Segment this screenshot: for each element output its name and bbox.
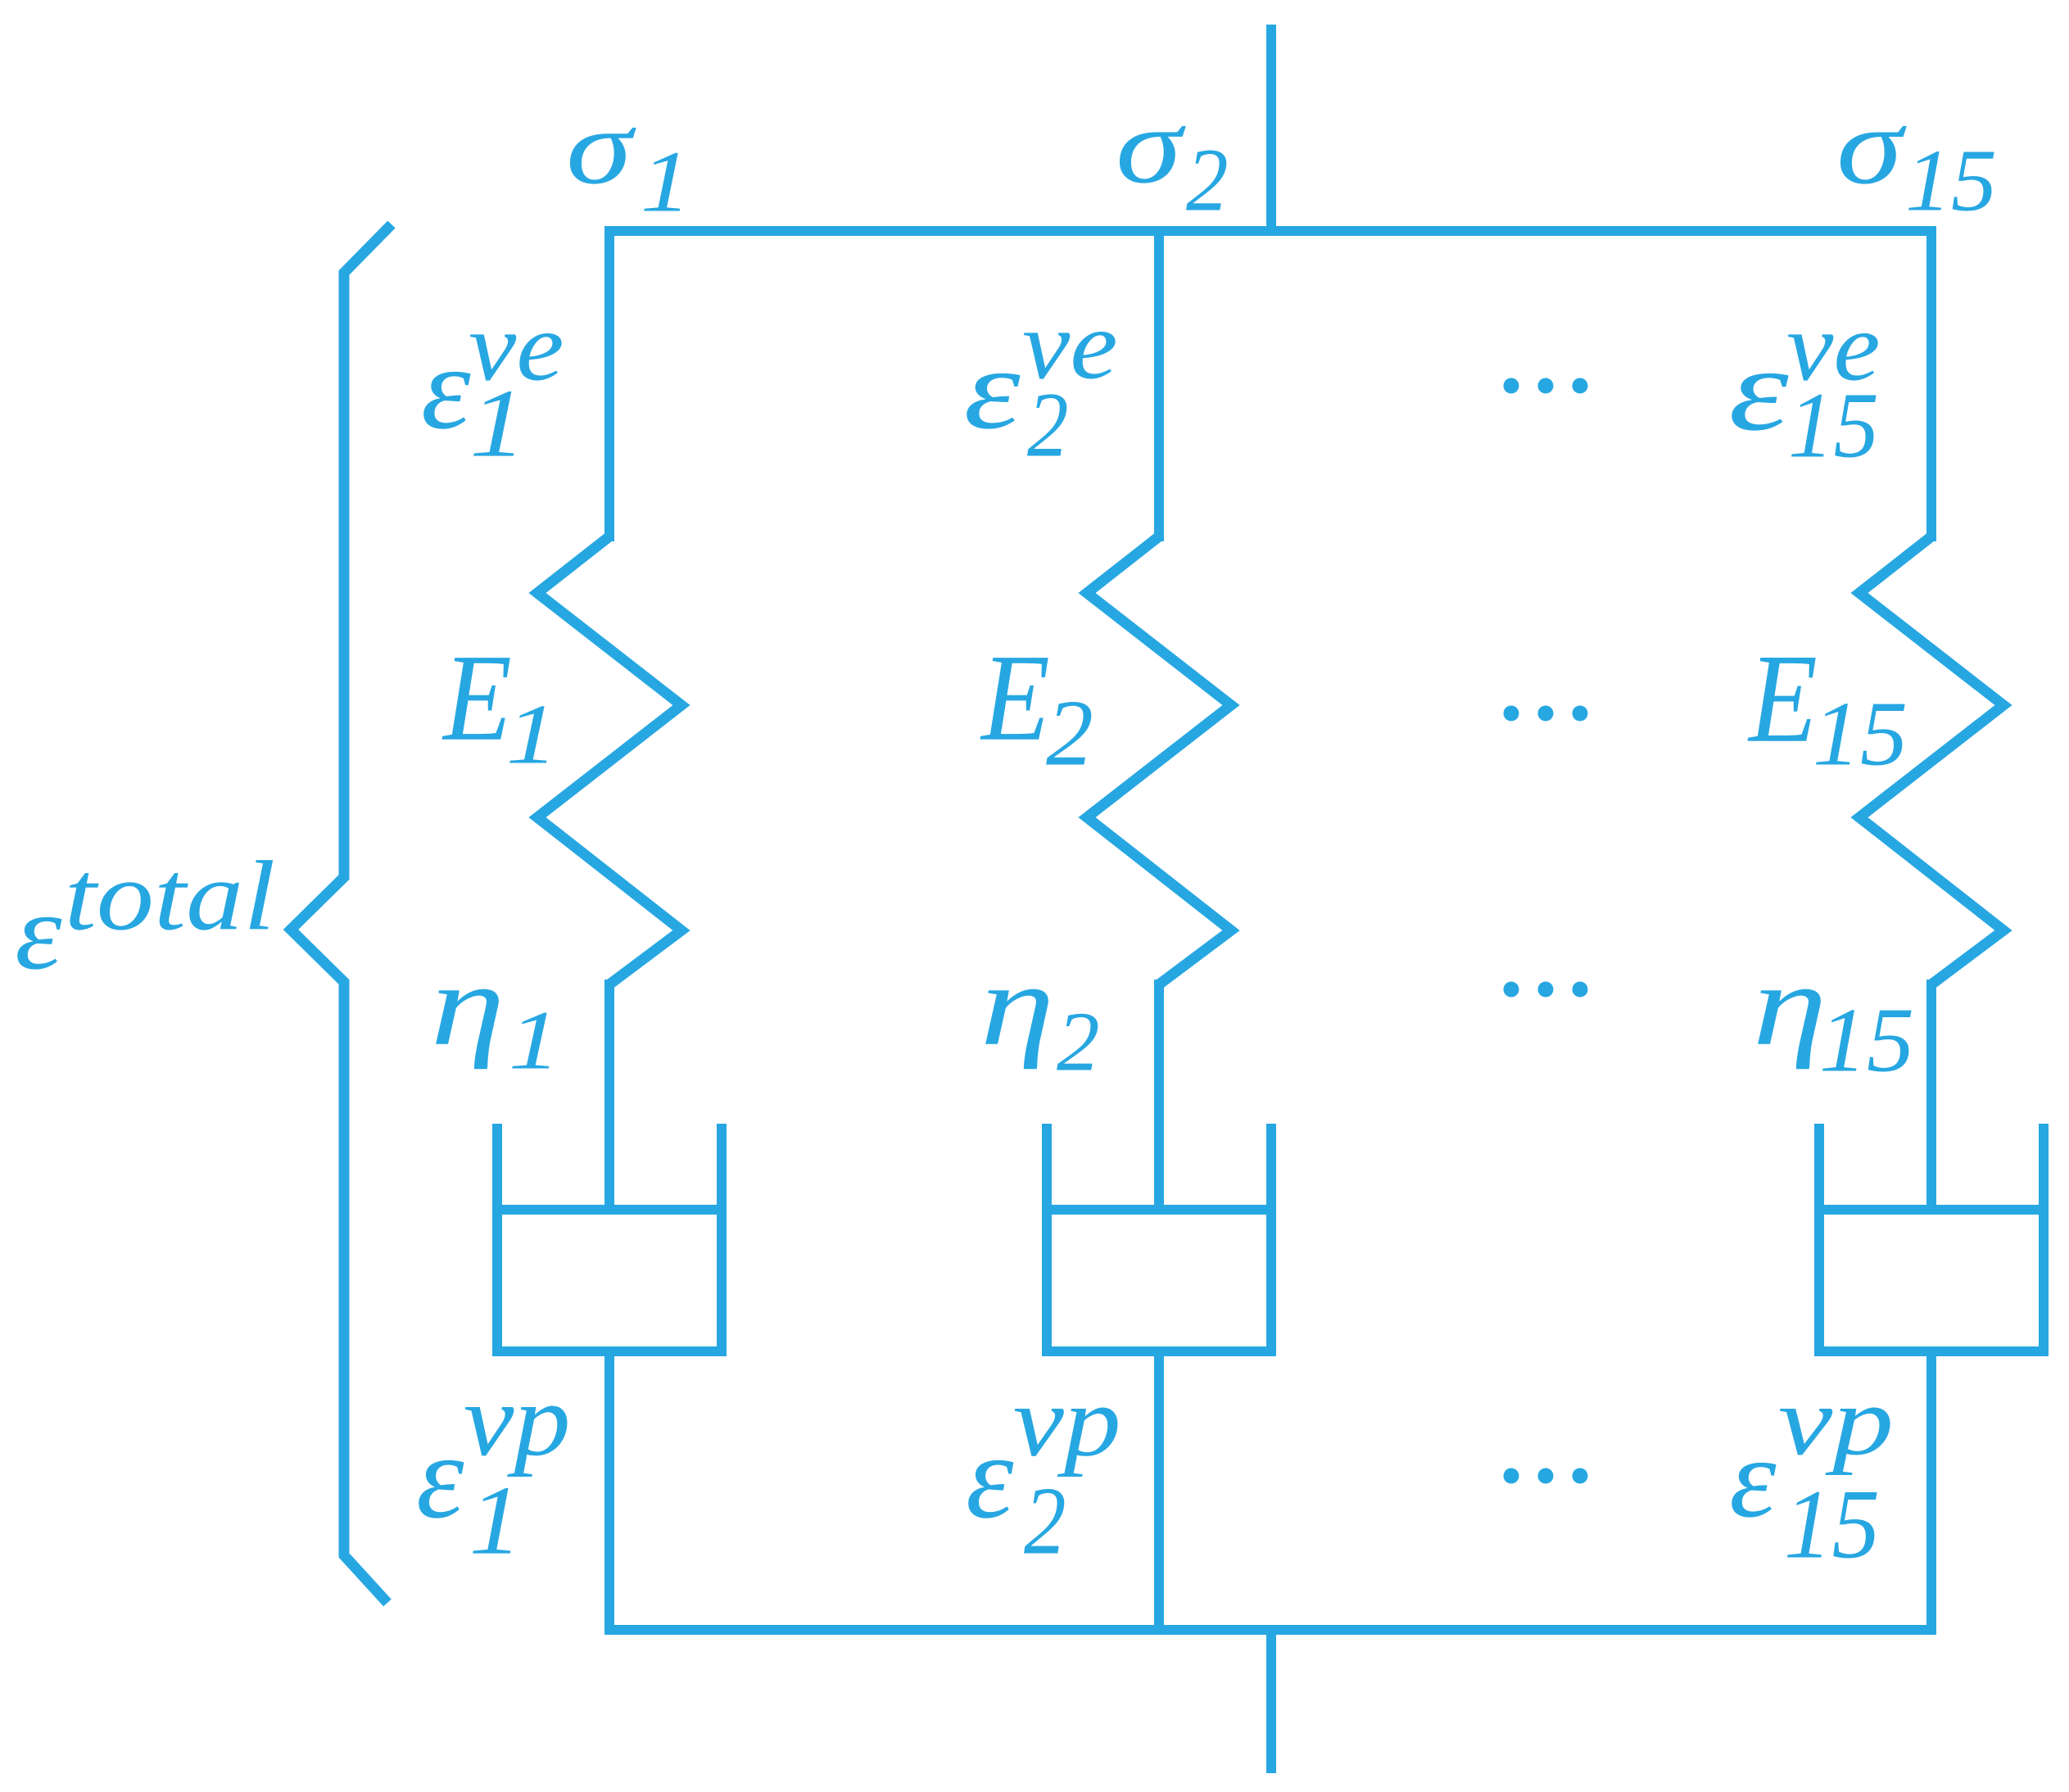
- svg-text:2: 2: [1046, 681, 1093, 785]
- svg-text:1: 1: [641, 133, 691, 230]
- svg-text:E: E: [1747, 627, 1818, 769]
- svg-text:vp: vp: [1013, 1365, 1121, 1477]
- label E15: [1747, 627, 1908, 785]
- svg-text:1: 1: [469, 1466, 523, 1576]
- svg-text:15: 15: [1813, 682, 1908, 785]
- label σ15: [1836, 86, 1997, 230]
- svg-text:15: 15: [1905, 131, 1997, 229]
- wire: top bus: [604, 226, 1936, 236]
- wire: branch 15 rod spring-to-piston: [1926, 980, 1936, 1215]
- svg-text:σ: σ: [1116, 86, 1187, 206]
- dashpot η1: piston plate: [492, 1205, 727, 1215]
- label η2: [980, 940, 1100, 1088]
- ellipsis row 2 (between E2 and E15): [1504, 706, 1588, 722]
- svg-text:ε: ε: [964, 325, 1021, 453]
- spring E1 (zigzag): [537, 536, 681, 984]
- svg-text:1: 1: [506, 686, 558, 782]
- svg-text:ε: ε: [15, 872, 62, 992]
- svg-text:η: η: [1753, 940, 1827, 1070]
- svg-text:15: 15: [1788, 374, 1879, 477]
- svg-text:ε: ε: [416, 1410, 464, 1544]
- dashpot η15: piston plate: [1814, 1205, 2049, 1215]
- dashpot η1: cylinder cup: [497, 1124, 722, 1351]
- svg-text:2: 2: [1027, 373, 1069, 476]
- svg-text:1: 1: [469, 369, 526, 477]
- wire: bottom feed stub: [1266, 1630, 1276, 1773]
- svg-text:2: 2: [1186, 131, 1229, 231]
- svg-text:E: E: [441, 629, 512, 767]
- label E1: [441, 629, 558, 782]
- svg-text:E: E: [980, 629, 1050, 767]
- label η15: [1753, 940, 1914, 1091]
- label ε2vp: [966, 1365, 1121, 1575]
- dashpot η15: cylinder cup: [1819, 1124, 2044, 1351]
- svg-text:ε: ε: [966, 1410, 1014, 1544]
- wire: branch 1 rod spring-to-piston: [604, 980, 614, 1215]
- label ε1ve: [421, 293, 564, 477]
- wire: top feed stub: [1266, 25, 1276, 236]
- spring E2 (zigzag): [1087, 536, 1231, 984]
- wire: branch 1 upper segment: [604, 226, 614, 541]
- svg-text:total: total: [65, 841, 276, 951]
- wire: branch 1 lower rod: [604, 1346, 614, 1635]
- wire: branch 15 lower rod: [1926, 1346, 1936, 1635]
- ellipsis row 1 (between ε2ve and ε15ve): [1504, 378, 1588, 394]
- label ε total: [15, 841, 275, 993]
- label η1: [431, 940, 560, 1087]
- svg-text:σ: σ: [1836, 86, 1907, 207]
- wire: branch 2 upper segment: [1154, 226, 1164, 541]
- label σ1: [566, 88, 691, 231]
- svg-text:η: η: [980, 940, 1055, 1070]
- svg-text:vp: vp: [464, 1363, 571, 1477]
- label E2: [980, 629, 1093, 785]
- brace for ε total: [291, 224, 392, 1603]
- label ε1vp: [416, 1363, 571, 1576]
- svg-text:2: 2: [1024, 1468, 1066, 1575]
- label σ2: [1116, 86, 1228, 231]
- wire: branch 2 rod spring-to-piston: [1154, 980, 1164, 1215]
- svg-text:ε: ε: [1729, 1414, 1777, 1541]
- wire: bottom bus: [606, 1625, 1936, 1635]
- dashpot η2: cylinder cup: [1047, 1124, 1271, 1351]
- svg-text:η: η: [431, 940, 505, 1070]
- svg-text:vp: vp: [1778, 1367, 1894, 1476]
- wire: branch 2 lower rod: [1154, 1346, 1164, 1635]
- svg-text:15: 15: [1784, 1469, 1880, 1579]
- label ε2ve: [964, 292, 1118, 477]
- svg-text:ε: ε: [421, 323, 471, 454]
- svg-text:ε: ε: [1728, 324, 1789, 456]
- ellipsis row 4 (between ε2vp and ε15vp): [1504, 1468, 1588, 1484]
- label ε15ve: [1728, 292, 1880, 477]
- svg-text:2: 2: [1057, 994, 1100, 1088]
- svg-text:1: 1: [509, 993, 560, 1087]
- wire: branch 15 upper segment: [1926, 226, 1936, 541]
- dashpot η2: piston plate: [1042, 1205, 1276, 1215]
- spring E15 (zigzag): [1859, 536, 2003, 984]
- ellipsis row 3 (between η2 and η15): [1504, 982, 1588, 998]
- svg-text:σ: σ: [566, 88, 636, 206]
- svg-text:15: 15: [1819, 989, 1914, 1091]
- label ε15vp: [1729, 1367, 1894, 1579]
